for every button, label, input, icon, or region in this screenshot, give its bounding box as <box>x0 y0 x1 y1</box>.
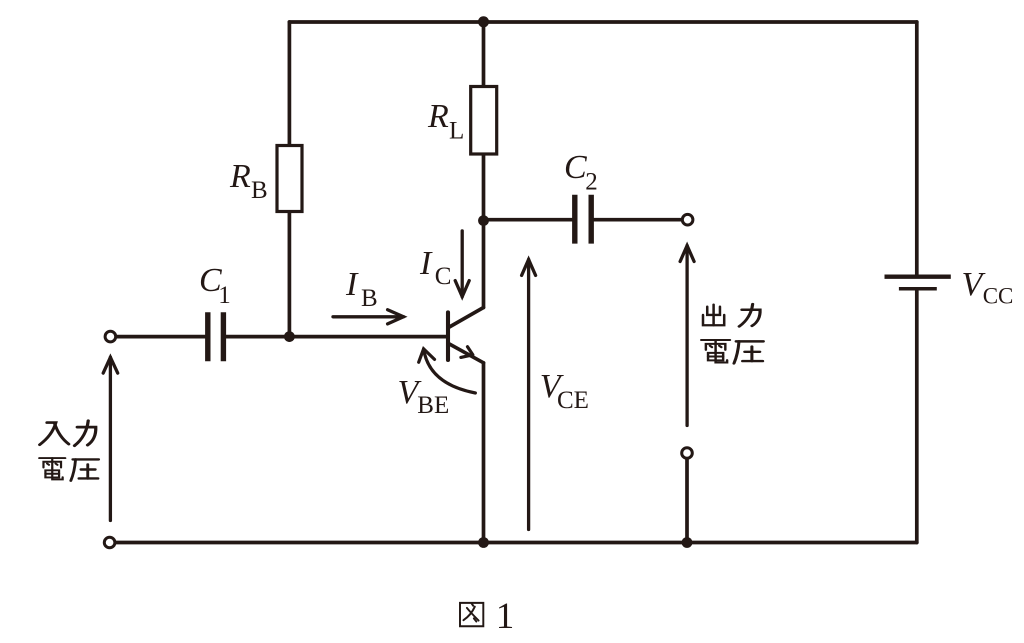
wire RB lower lead <box>288 212 292 337</box>
arrow input voltage <box>103 357 118 520</box>
capacitor C1 plates <box>208 312 224 361</box>
svg-text:1: 1 <box>218 282 231 309</box>
svg-text:C: C <box>435 263 452 290</box>
capacitor C2 plates <box>575 195 591 244</box>
node collector junction <box>478 215 489 226</box>
svg-text:B: B <box>251 177 268 204</box>
collector diagonal <box>449 308 484 328</box>
battery V_CC plates <box>885 277 951 289</box>
terminal output top <box>682 214 693 225</box>
svg-text:C: C <box>564 149 587 186</box>
svg-text:1: 1 <box>496 596 515 637</box>
wire RL upper lead <box>482 22 486 87</box>
arrow I_C <box>455 231 469 297</box>
node emitter bottom junction <box>478 537 489 548</box>
arrow output voltage <box>680 246 694 426</box>
svg-text:I: I <box>345 266 359 303</box>
label input voltage 入力電圧 <box>40 423 69 445</box>
arrow I_B <box>333 310 404 324</box>
node base junction <box>284 331 295 342</box>
wire output terminal to bottom <box>685 460 689 543</box>
wire collector node to C2 <box>484 218 573 222</box>
wire C2 to output terminal <box>594 218 681 222</box>
wire right vertical upper (Vcc top) <box>915 22 919 275</box>
resistor R_L <box>471 87 497 155</box>
svg-text:CE: CE <box>557 387 589 414</box>
wire input to C1 <box>117 335 205 339</box>
emitter arrowhead <box>461 347 473 358</box>
transistor Q1 <box>448 221 484 543</box>
wire RL lower lead <box>482 154 486 221</box>
wire right vertical lower (Vcc bottom) <box>915 291 919 543</box>
resistor R_B <box>277 146 302 212</box>
wire top horizontal <box>289 20 916 24</box>
emitter vertical <box>482 363 486 543</box>
svg-text:R: R <box>229 158 251 195</box>
node output bottom junction <box>682 537 693 548</box>
svg-text:L: L <box>449 117 464 144</box>
emitter diagonal <box>449 344 484 363</box>
wire C1 to base (through node) <box>226 335 446 339</box>
arrow V_BE arc <box>419 349 476 393</box>
caption 図1 <box>460 603 483 626</box>
arrow V_CE <box>522 260 536 530</box>
svg-text:BE: BE <box>417 392 449 419</box>
svg-text:B: B <box>361 285 378 312</box>
svg-text:I: I <box>419 245 433 282</box>
terminal input top <box>105 331 116 342</box>
wire bottom horizontal <box>116 541 917 545</box>
base bar <box>446 312 450 360</box>
svg-text:2: 2 <box>585 168 598 195</box>
node top junction <box>478 16 489 27</box>
label output voltage 出力電圧 <box>703 305 724 326</box>
wire RB upper lead <box>288 22 292 146</box>
collector vertical <box>482 221 486 308</box>
terminal input bottom <box>104 537 115 548</box>
svg-text:CC: CC <box>983 284 1014 309</box>
terminal output bottom <box>682 448 693 459</box>
svg-text:R: R <box>427 98 449 135</box>
